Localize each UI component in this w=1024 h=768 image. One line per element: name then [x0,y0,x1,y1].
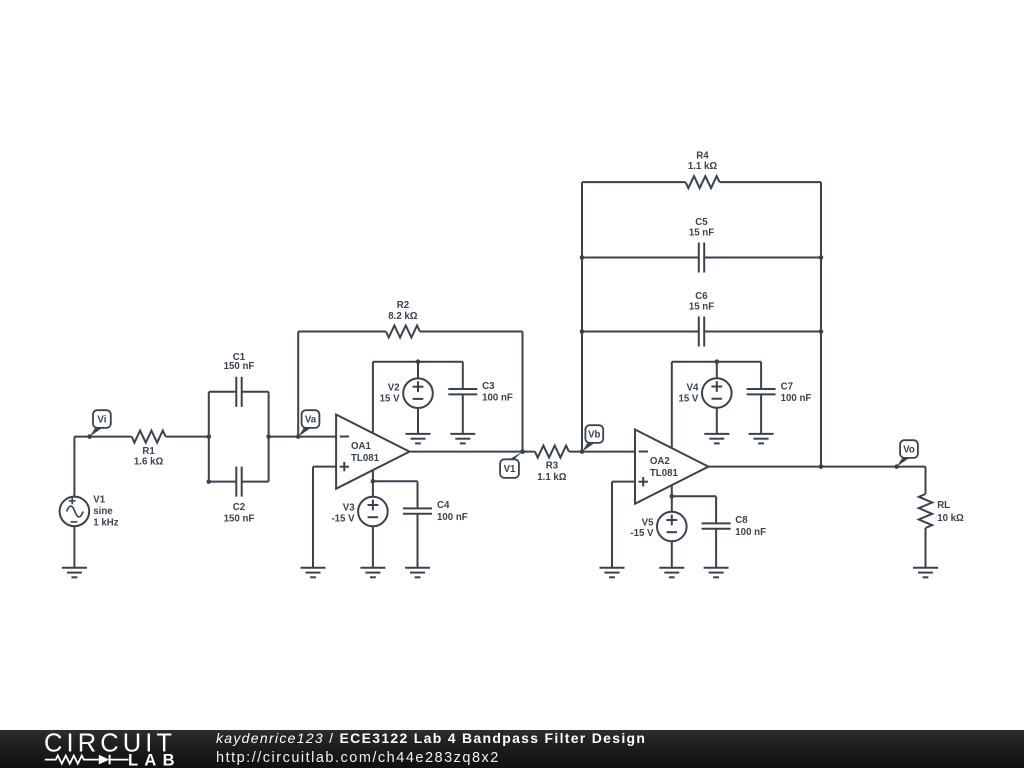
svg-text:1 kHz: 1 kHz [93,517,118,528]
wire V2 top [417,362,419,379]
svg-text:Va: Va [305,415,317,426]
svg-text:100 nF: 100 nF [735,527,766,538]
capacitor C2 (150 nF) [236,467,241,497]
svg-text:V2: V2 [388,383,400,394]
label RL 10 kΩ [937,500,964,524]
wire output corner down to RL [925,467,927,494]
svg-text:Vi: Vi [97,415,106,426]
svg-text:C7: C7 [781,382,793,393]
wire feedback row left segment [298,331,386,333]
junction C6 right [819,329,824,334]
svg-text:TL081: TL081 [650,468,679,479]
ground for C8 [704,568,729,578]
wire box bottom-left [209,481,237,483]
label C7 100 nF [781,382,812,404]
junction box bottom-left [207,479,212,484]
svg-text:TL081: TL081 [351,453,380,464]
svg-text:V3: V3 [343,503,355,514]
ground for V3 [360,568,385,578]
wire RL bottom to ground [925,528,927,568]
svg-text:1.1 kΩ: 1.1 kΩ [537,472,567,483]
wire box left rail [208,392,210,482]
svg-text:1.1 kΩ: 1.1 kΩ [688,161,718,172]
node flag Vi [87,410,111,439]
resistor R3 (1.1 kΩ) [535,446,569,458]
wire box to OA1 minus input [269,436,337,438]
ground for C3 [450,434,475,444]
junction box right on input row [266,434,271,439]
wire V+ rail stage 1 [373,361,463,363]
svg-text:V1: V1 [93,495,105,506]
wire feedback right rail [820,182,822,467]
wire C5 row right [704,257,821,259]
ground for V2 [406,434,431,444]
resistor R2 (8.2 kΩ) [386,326,420,338]
wire OA1 plus down to ground [312,467,314,568]
ground for V4 [704,434,729,444]
capacitor C8 (100 nF) [702,523,731,528]
svg-text:15 nF: 15 nF [689,302,714,313]
wire V2 bottom to ground [417,408,419,434]
node flag Vb [580,425,604,454]
label C4 100 nF [437,500,468,523]
wire input row left segment [74,436,131,438]
ground for C7 [749,434,774,444]
wire V1 bottom to ground [73,526,75,568]
wire OA2 V- pin [671,485,673,496]
ground for RL [913,568,938,578]
footer url text [216,750,500,766]
junction C5 right [819,255,824,260]
wire C7 bottom to ground [760,394,762,434]
wire OA2 V+ pin [671,362,673,448]
svg-text:-15 V: -15 V [331,513,355,524]
wire V3 bottom to ground [372,526,374,568]
wire rail down to C3 [462,362,464,389]
svg-text:15 V: 15 V [380,394,400,405]
wire C8 top [715,496,717,523]
svg-text:100 nF: 100 nF [437,512,468,523]
svg-text:C3: C3 [482,381,495,392]
ground for V1 [62,568,87,578]
capacitor C1 (150 nF) [236,377,241,407]
svg-text:Vo: Vo [903,445,915,456]
capacitor C7 (100 nF) [747,389,776,394]
wire OA2 plus input [612,481,635,483]
svg-text:15 V: 15 V [678,393,698,404]
label R3 1.1 kΩ [537,460,567,483]
label R2 8.2 kΩ [388,300,418,322]
wire V- node down to V3 [372,481,374,496]
wire feedback right rail down to output node [522,332,524,452]
capacitor C3 (100 nF) [448,389,477,394]
capacitor C4 (100 nF) [403,508,432,513]
node flag Vo [894,440,917,469]
label C8 100 nF [735,515,766,538]
junction OA1 V- node [371,479,376,484]
svg-text:R4: R4 [696,151,709,162]
wire C6 row right [704,331,821,333]
wire V5 bottom to ground [671,541,673,568]
label V5 -15 V [630,518,654,540]
junction feedback right rail on output [819,464,824,469]
svg-text:sine: sine [93,506,113,517]
svg-text:RL: RL [937,500,950,511]
svg-text:OA2: OA2 [650,456,670,467]
wire OA2 output row [708,466,925,468]
svg-text:C2: C2 [233,502,245,513]
node flag V1 [500,449,525,478]
wire R1 to C1/C2 box [166,436,209,438]
junction C6 left [580,329,585,334]
capacitor C5 (15 nF) [699,243,704,273]
voltage source V5 (-15 V) [657,512,687,542]
wire rail down to C7 [760,362,762,389]
svg-text:V5: V5 [642,518,654,529]
label C6 15 nF [689,291,714,312]
svg-text:150 nF: 150 nF [224,361,255,372]
wire OA1 V+ pin [372,362,374,433]
voltage source V2 (15 V) [403,378,433,408]
wire R4 row left [582,181,686,183]
wire V- node to C4 [373,480,418,482]
ground for OA2 plus input [600,568,625,578]
wire box right rail [268,392,270,482]
svg-text:1.6 kΩ: 1.6 kΩ [134,456,164,467]
wire OA2 V- node to C8 [672,495,716,497]
node flag Va [296,410,319,439]
CircuitLab logo [0,725,200,768]
wire OA1 plus input [313,466,336,468]
wire C3 bottom to ground [462,394,464,434]
label R4 1.1 kΩ [688,151,718,172]
wire OA2 plus down to ground [611,482,613,568]
wire C4 top [417,481,419,508]
wire V4 bottom to ground [716,408,718,434]
wire R4 row right [720,181,822,183]
ground for OA1 plus input [301,568,326,578]
svg-text:R2: R2 [397,300,409,311]
svg-text:V4: V4 [687,382,699,393]
wire C8 bottom to ground [715,529,717,568]
svg-text:10 kΩ: 10 kΩ [937,513,964,524]
wire box top-right [242,391,269,393]
wire Va node up to feedback row [297,332,299,437]
svg-text:V1: V1 [504,464,516,475]
resistor R1 [132,431,166,443]
wire C6 row left [582,331,699,333]
svg-text:15 nF: 15 nF [689,227,714,238]
wire R3 to OA2 minus input [569,451,635,453]
wire V4 top [716,362,718,379]
footer title text [216,730,646,746]
wire OA1 output [410,451,535,453]
footer bar [0,730,1024,768]
svg-text:-15 V: -15 V [630,528,654,539]
ground for C4 [405,568,430,578]
junction OA2 V- node [670,494,675,499]
wire OA2 V- node down to V5 [671,496,673,511]
svg-text:8.2 kΩ: 8.2 kΩ [388,311,418,322]
voltage source V4 (15 V) [702,378,732,408]
label C2 150 nF [224,502,255,524]
svg-text:150 nF: 150 nF [224,513,255,524]
wire V+ rail stage 2 [672,361,761,363]
label V2 15 V [380,383,400,405]
junction V4 on rail [715,359,720,364]
wire C4 bottom to ground [417,514,419,568]
wire V1 top to input row [73,437,75,497]
ground for V5 [659,568,684,578]
junction OA1 output node [520,449,525,454]
label V1 sine 1 kHz [93,495,118,529]
op-amp OA2 (OA2 TL081) [635,430,708,504]
junction box left on input row [207,434,212,439]
voltage source V3 (-15 V) [358,497,388,527]
svg-text:C6: C6 [695,291,708,302]
svg-text:100 nF: 100 nF [781,393,812,404]
label C5 15 nF [689,217,714,238]
op-amp OA1 (OA1 TL081) [336,415,409,489]
svg-text:C4: C4 [437,500,450,511]
wire C5 row left [582,257,699,259]
junction V2 on rail [416,359,421,364]
label V3 -15 V [331,503,355,525]
wire box top-left [209,391,237,393]
resistor R4 (1.1 kΩ) [686,176,720,188]
label C1 150 nF [224,352,255,372]
wire box bottom-right [242,481,269,483]
svg-text:R3: R3 [546,460,559,471]
wire feedback left rail [581,182,583,452]
svg-text:100 nF: 100 nF [482,393,513,404]
label C3 100 nF [482,381,513,404]
wire OA1 V- pin [372,470,374,481]
svg-text:LAB: LAB [128,752,181,768]
label R1 1.6 kΩ [134,446,164,467]
resistor RL (10 kΩ) [919,494,932,528]
voltage source V1 (sine 1 kHz) [60,497,90,527]
wire feedback row right segment [420,331,523,333]
svg-text:OA1: OA1 [351,441,372,452]
label V4 15 V [678,382,699,404]
svg-text:Vb: Vb [588,430,600,441]
capacitor C6 (15 nF) [699,317,704,347]
svg-text:C8: C8 [735,515,748,526]
junction C5 left [580,255,585,260]
